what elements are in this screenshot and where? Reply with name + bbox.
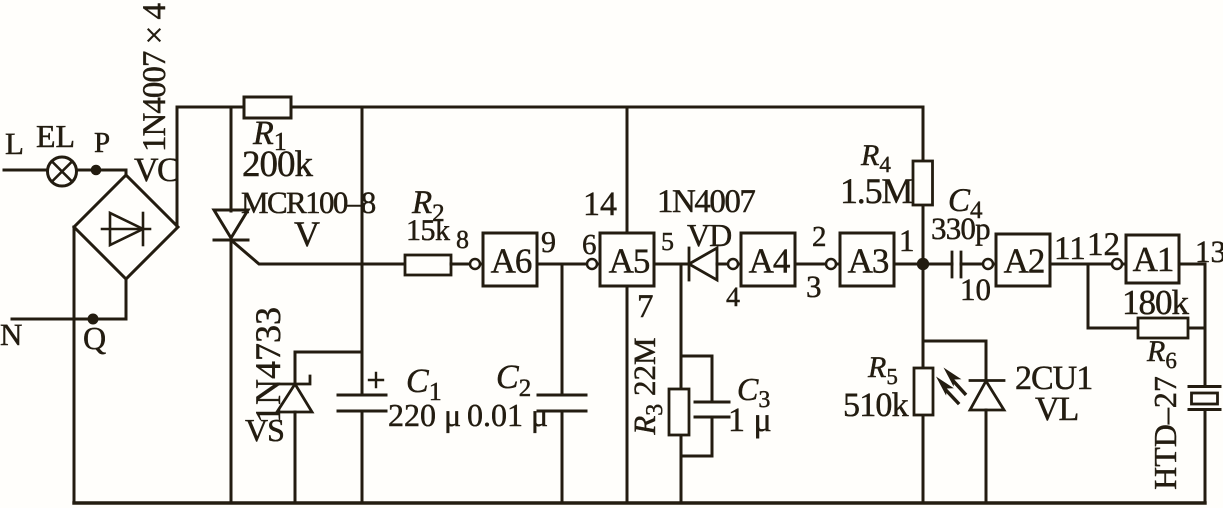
svg-text:8: 8 [456,225,469,254]
IC A3 [840,233,894,286]
wire lamp to bridge top [77,170,127,176]
svg-text:0.01 μ: 0.01 μ [467,397,548,433]
wire A5 pin7 to bottom rail [626,286,629,503]
IC A6 [483,233,537,286]
svg-text:C2: C2 [496,359,531,402]
thyristor gate wire [231,240,405,264]
wire N input [12,280,126,319]
capacitor C2 branch [561,264,564,503]
capacitor C3 [695,402,729,417]
svg-text:510k: 510k [843,387,909,424]
IC A4 [741,233,795,286]
svg-text:11: 11 [1054,231,1086,267]
svg-text:R6: R6 [1146,335,1177,373]
svg-text:200k: 200k [242,144,314,185]
thyristor V [214,210,248,240]
svg-text:1N4733: 1N4733 [248,307,288,423]
wire VD to A4 [717,263,741,266]
svg-text:VS: VS [245,412,284,448]
svg-text:1N4007: 1N4007 [657,184,755,220]
wire A1 to sounder [1179,264,1205,386]
light arrow 1 [944,368,968,397]
svg-text:VC: VC [134,152,178,189]
resistor R6 [1138,318,1188,338]
svg-text:P: P [94,127,110,159]
zener diode VS [277,376,312,412]
svg-text:9: 9 [541,226,556,259]
svg-text:VL: VL [1035,391,1078,428]
svg-text:A1: A1 [1133,240,1174,279]
wire A4 to A3 [795,263,840,266]
IC A2 [996,234,1050,286]
svg-text:10: 10 [960,272,991,307]
svg-text:12: 12 [1087,227,1120,263]
resistor R4 [913,161,933,205]
wire A2 to A1 [1050,263,1126,266]
top rail [177,106,923,109]
capacitor C4 [952,252,961,277]
wire A5 pin14 to top rail [626,107,629,233]
bridge rectifier VC [74,175,178,279]
bottom rail [74,501,1205,504]
svg-text:5: 5 [661,227,674,256]
svg-text:V: V [294,214,320,254]
thyristor V anode wire [230,107,233,211]
svg-text:180k: 180k [1122,283,1190,322]
svg-text:HTD–27: HTD–27 [1147,376,1183,490]
IC A1 [1126,235,1179,283]
capacitor C1 [338,373,386,411]
main vertical bus (C1 branch) [361,107,364,503]
svg-text:1 μ: 1 μ [728,402,772,439]
wire R2 to A6 [451,263,483,266]
light arrow 2 [936,377,960,406]
terminal 6 [587,259,597,269]
svg-text:7: 7 [637,289,654,325]
terminal 10 [983,259,993,269]
svg-text:A5: A5 [609,242,650,281]
node Q [88,314,99,325]
sounder HTD-27 [1189,387,1220,410]
resistor R1 [244,97,291,118]
resistor R5 [914,368,933,415]
svg-text:VD: VD [687,217,731,253]
capacitor C3 branch wire [681,356,712,456]
R6 branch wire [1088,264,1205,328]
wire bridge right vertex to top rail [176,107,179,227]
bridge diode [102,213,150,245]
svg-text:R5: R5 [867,351,898,389]
diode VD [689,248,717,280]
svg-text:N: N [0,317,22,352]
svg-text:13: 13 [1195,234,1223,269]
svg-text:EL: EL [36,118,75,154]
node 1 [917,258,929,270]
resistor R2 [405,255,451,275]
svg-text:A6: A6 [491,242,532,281]
resistor R3 [669,389,689,435]
wire A6 to A5 [537,263,600,266]
svg-text:2: 2 [812,221,827,253]
wire R5 to VL [923,340,986,343]
svg-text:A2: A2 [1004,242,1045,281]
svg-text:14: 14 [583,186,617,223]
photodiode VL wire [985,341,988,503]
svg-text:Q: Q [83,320,106,356]
wire bridge left vertex to bottom rail [73,227,76,503]
svg-text:4: 4 [726,282,740,313]
svg-text:6: 6 [582,229,597,261]
svg-text:1: 1 [899,223,915,258]
wire A3 to C4 [894,263,952,266]
capacitor C2 [538,395,586,411]
wire C4 to A2 [961,263,996,266]
svg-text:3: 3 [806,269,822,304]
svg-text:A4: A4 [749,242,790,281]
terminal 3 [826,259,836,269]
wire A5 to diode VD [654,263,689,266]
svg-text:1N4007 × 4: 1N4007 × 4 [137,4,173,152]
svg-text:220 μ: 220 μ [388,397,461,433]
svg-text:1.5M: 1.5M [840,171,912,211]
photodiode VL [970,381,1004,411]
zener VS to bottom rail [294,412,297,503]
svg-text:A3: A3 [848,242,889,281]
R3 C3 branch wire [680,264,683,503]
terminal 12 [1112,259,1122,269]
svg-text:L: L [5,126,24,161]
terminal 4 [728,259,738,269]
zener VS wire [295,352,362,384]
sounder to bottom rail [1204,410,1207,503]
node P [91,165,102,176]
wire L input [4,169,47,172]
lamp EL [48,157,77,186]
IC A5 [600,233,654,286]
terminal 8 [470,259,480,269]
svg-text:15k: 15k [406,214,450,247]
thyristor V cathode wire [230,240,233,503]
svg-text:R3 22M: R3 22M [627,337,668,435]
R4 R5 branch [922,107,925,503]
svg-text:330p: 330p [931,211,990,246]
